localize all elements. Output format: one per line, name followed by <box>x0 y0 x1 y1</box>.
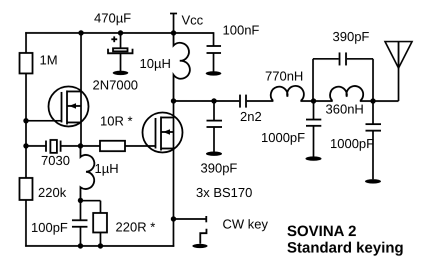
svg-text:390pF: 390pF <box>200 161 237 176</box>
antenna <box>385 42 412 102</box>
node K (80.5,200.5) <box>78 198 83 203</box>
wire: M2 drain/source vertical x=173.5 <box>172 101 174 247</box>
wire: gate of Q1 to left rail <box>26 120 61 122</box>
CW key terminal wire <box>173 216 206 222</box>
svg-text:1M: 1M <box>40 53 58 68</box>
capacitor C3 100pF <box>72 200 88 246</box>
svg-text:3x BS170: 3x BS170 <box>196 185 252 200</box>
node G (373,101) <box>370 98 375 103</box>
node M (100.5,246) <box>98 243 103 248</box>
resistor R4 220R* <box>80 201 107 246</box>
capacitor C2 100nF <box>207 32 222 71</box>
wire: top Vcc rail y=33 <box>25 32 213 34</box>
svg-text:100pF: 100pF <box>31 220 68 235</box>
inductor L1 10uH <box>174 33 190 101</box>
capacitor C4 390pF <box>206 101 222 152</box>
resistor R1 1M <box>20 53 33 74</box>
svg-text:10µH: 10µH <box>140 56 171 71</box>
svg-text:1000pF: 1000pF <box>261 130 305 145</box>
inductor L2 1uH <box>80 146 94 201</box>
svg-text:1µH: 1µH <box>94 161 118 176</box>
wire: main RF line y=101 (segment 3) <box>300 100 332 102</box>
Vcc terminal <box>170 13 177 33</box>
svg-text:CW key: CW key <box>222 217 268 232</box>
wire: left rail x=26 <box>25 32 27 247</box>
node N (173.5,219) <box>171 216 176 221</box>
inductor L3 770nH <box>271 86 304 101</box>
svg-text:770nH: 770nH <box>265 69 303 84</box>
node I (26,146) <box>23 143 28 148</box>
node F (313.5,101) <box>311 98 316 103</box>
CW key lower contact <box>200 229 206 244</box>
transistor Q1 2N7000 MOSFET <box>49 86 89 126</box>
node J (80.5,146) <box>78 143 83 148</box>
capacitor C1 470uF electrolytic <box>108 33 133 71</box>
resistor R2 10R* <box>80 141 155 151</box>
capacitor C6 390pF top loop <box>313 52 373 101</box>
svg-text:220k: 220k <box>38 185 67 200</box>
ground for CW key <box>192 244 207 248</box>
svg-text:100nF: 100nF <box>223 22 260 37</box>
svg-text:Vcc: Vcc <box>182 12 204 27</box>
ground for C4 <box>206 151 222 155</box>
svg-text:7030: 7030 <box>41 153 70 168</box>
svg-text:SOVINA 2: SOVINA 2 <box>287 223 356 240</box>
wire: main RF line y=101 (segment 2) <box>247 100 274 102</box>
capacitor C5 2n2 <box>240 95 246 108</box>
node E (214,101) <box>211 98 216 103</box>
node D (173.5,101) <box>171 98 176 103</box>
svg-text:220R *: 220R * <box>115 219 155 234</box>
inductor L4 360nH <box>330 86 363 101</box>
svg-text:360nH: 360nH <box>326 102 364 117</box>
ground for C2 <box>206 71 222 75</box>
svg-text:Standard keying: Standard keying <box>287 240 404 257</box>
ground for C7 <box>305 156 321 160</box>
svg-text:2n2: 2n2 <box>240 109 262 124</box>
capacitor C7 1000pF <box>306 101 321 157</box>
node C (173.5,33) <box>171 30 176 35</box>
wire: M1 drain/source vertical x=81 <box>80 33 82 146</box>
node L (80.5,246) <box>78 243 83 248</box>
wire: main RF line y=101 (segment 1) <box>174 100 240 102</box>
svg-text:1000pF: 1000pF <box>330 136 374 151</box>
resistor R3 220k <box>19 178 32 200</box>
svg-text:390pF: 390pF <box>333 29 370 44</box>
wire: bottom ground-return rail y=246 <box>25 245 174 247</box>
transistor Q2 3x BS170 MOSFET <box>142 112 182 152</box>
capacitor C8 1000pF <box>365 101 381 179</box>
svg-text:2N7000: 2N7000 <box>93 78 139 93</box>
crystal X1 7030 <box>26 140 81 153</box>
node B (120.5,33) <box>118 30 123 35</box>
ground for C8 <box>365 179 381 183</box>
svg-text:470µF: 470µF <box>94 10 131 25</box>
node A (81,33) <box>78 30 83 35</box>
node H (26,121) <box>23 118 28 123</box>
wire: main RF line y=101 (segment 4) <box>360 100 399 102</box>
svg-text:10R *: 10R * <box>100 114 133 129</box>
ground for C1 <box>113 71 129 75</box>
